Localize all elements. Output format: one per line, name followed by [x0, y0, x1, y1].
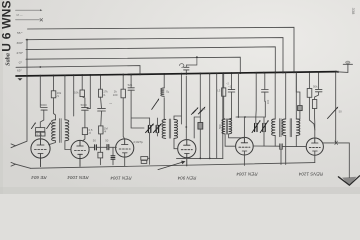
resistor stage4 right [199, 74, 201, 122]
rheostat arrow [328, 108, 337, 118]
svg-text:REN 904: REN 904 [177, 176, 196, 181]
svg-text:100: 100 [266, 99, 270, 104]
bus line 300V [26, 38, 283, 73]
thick chassis bus [16, 72, 337, 76]
svg-text:300*: 300* [17, 41, 24, 45]
V6 anode out wire [323, 143, 350, 178]
dial pointer line 2 with x end [16, 19, 40, 21]
coupling capacitor 50 b [107, 145, 109, 150]
output transformer winding 2 [282, 119, 286, 136]
trimmer caps stage5 (dark) [255, 124, 257, 132]
junction dot on 65V line [39, 66, 41, 68]
transformer T1 primary coil [52, 120, 56, 141]
wire drop x73.7 [73, 75, 75, 116]
resistor 10k stage2 [81, 75, 83, 90]
tube V4 REN904 [178, 140, 196, 166]
wire drop x216.7 [216, 74, 218, 158]
capacitor 0,1 top [130, 75, 132, 88]
svg-text:REN 1004: REN 1004 [236, 172, 258, 177]
svg-text:50k: 50k [313, 84, 318, 88]
tick on out wire [335, 141, 338, 145]
trimmer arrow a [252, 122, 259, 133]
capacitor 5000 stage1 [41, 108, 47, 111]
transformer T4 secondary [174, 120, 178, 139]
trimmer feed wires [150, 118, 158, 164]
small box stage6 [298, 106, 303, 111]
tuning cap arrow b [153, 125, 160, 133]
trimmer arrow left [31, 124, 34, 129]
wire drop x209.7 [209, 74, 211, 158]
T1 secondary top lead to bus [64, 75, 66, 119]
rheostat wire [335, 72, 337, 143]
bus line 270V [26, 47, 275, 73]
svg-text:M —: M — [17, 13, 23, 17]
capacitor 5000 stage2 [82, 108, 89, 111]
tuning arrow stage4b [198, 108, 204, 114]
output arrow (large) [338, 176, 359, 185]
wire drop x222.8 [222, 74, 224, 158]
resistor 0,3 [223, 74, 225, 88]
output transformer winding 3 [296, 119, 300, 136]
pointer arrow across rail [158, 162, 183, 170]
svg-text:RENS 1204: RENS 1204 [298, 172, 323, 177]
junction dots on V5 grid wire [238, 116, 240, 118]
T1 primary bottom lead to V1 [49, 141, 56, 145]
tuning arrow stage4 [152, 100, 158, 109]
chassis marker triangle [18, 78, 23, 80]
wire drop x186.3 to V4 anode [185, 70, 187, 140]
grid wire above V5 [236, 73, 265, 146]
T1 secondary bottom lead to V2 grid [65, 141, 71, 150]
svg-text:55 *: 55 * [17, 31, 23, 35]
svg-text:270*: 270* [17, 51, 24, 55]
antenna terminal [11, 144, 16, 148]
resistor 50k [308, 73, 310, 88]
transformer T1 core [60, 119, 62, 143]
svg-text:0,50: 0,50 [155, 124, 159, 130]
bus line 55V [28, 27, 295, 72]
junction dot on V4 drop [185, 126, 187, 128]
svg-text:0,3: 0,3 [216, 88, 220, 92]
svg-text:0,05: 0,05 [36, 132, 42, 136]
resistor 2k [122, 75, 124, 89]
tuning capacitor pair (dark) [148, 126, 150, 133]
grid capacitor V6 [253, 145, 279, 147]
svg-text:50: 50 [339, 109, 343, 113]
tube V3 REN1004 [116, 139, 134, 166]
capacitor stage5 top [231, 74, 233, 89]
transformer T4 core [169, 119, 170, 138]
grid leak resistor below [99, 147, 101, 164]
svg-text:521: 521 [128, 83, 133, 87]
wire drop stage5 right [255, 74, 257, 117]
bus end arrowhead [334, 71, 338, 73]
transformer T4 primary [162, 120, 166, 139]
svg-text:REN 1004: REN 1004 [110, 176, 132, 181]
transformer T1 secondary coil [65, 120, 69, 141]
svg-text:500: 500 [218, 124, 222, 129]
coupling capacitor 50 a [89, 146, 94, 148]
capacitor stage6 top [264, 74, 266, 90]
tube V2 REN1004 [71, 140, 89, 166]
earth terminal [11, 162, 16, 166]
output transformer winding 1 [272, 119, 276, 136]
mains terminal [337, 64, 353, 72]
svg-text:5000: 5000 [81, 103, 88, 107]
resistor stage6 lower [312, 100, 316, 109]
tube V5 REN1004 [236, 137, 254, 165]
svg-text:5000: 5000 [41, 103, 48, 107]
svg-text:REN 1004: REN 1004 [67, 175, 89, 180]
grid capacitor box 0.05 [36, 128, 45, 132]
svg-text:0,047μ: 0,047μ [134, 140, 144, 144]
T4 secondary leads [174, 116, 181, 149]
tuning cap arrow a [146, 125, 153, 133]
grid rail under V4 [177, 157, 224, 159]
output transformer core b [290, 119, 291, 137]
svg-text:RE 604: RE 604 [31, 175, 47, 180]
output transformer core a [280, 119, 281, 137]
node on 300V line [26, 39, 28, 41]
T5 leads [224, 118, 245, 146]
capacitor stage6 right [318, 73, 320, 89]
capacitor stage3 [98, 108, 106, 111]
svg-text:0,1: 0,1 [202, 107, 206, 111]
grid resistor box stage2 [82, 128, 87, 135]
svg-text:U 6 WNS: U 6 WNS [0, 0, 14, 51]
transformer T5 core [226, 119, 227, 134]
tube V1 top lead [40, 132, 42, 139]
trimmer arrow right [47, 124, 50, 129]
wire drop x181.4 [180, 75, 182, 124]
winding drops [275, 73, 296, 119]
bus line 65V [16, 66, 140, 75]
svg-text:65*: 65* [17, 69, 22, 73]
transformer T5 secondary [229, 119, 232, 134]
padding capacitor box [141, 157, 148, 160]
junction dots on chassis bus [26, 71, 337, 77]
wire drop stage1 [40, 76, 44, 128]
svg-text:50: 50 [93, 139, 97, 143]
cathode rail [31, 163, 315, 169]
trimmer arrow b [260, 122, 267, 133]
earth wire to cathode rail [16, 164, 31, 168]
resistor 1M [99, 126, 103, 134]
transformer T5 primary [222, 119, 225, 134]
screen capacitor on -2V line [184, 67, 189, 70]
bypass capacitor stacked [112, 147, 114, 165]
antenna riser wire [16, 40, 28, 146]
bus line -2V [26, 57, 240, 73]
resistor 10k stage1 [53, 76, 55, 91]
svg-text:50: 50 [105, 139, 109, 143]
svg-text:338: 338 [351, 8, 356, 15]
svg-text:Saba: Saba [5, 53, 12, 66]
tube V6 RENS1204 [306, 138, 323, 163]
RF choke [163, 75, 165, 88]
gang capacitor arrow b [191, 109, 197, 115]
tube V1 RE604 [31, 139, 50, 167]
svg-text:10k: 10k [74, 90, 79, 94]
dial pointer line 1 with arrowhead [16, 9, 41, 11]
svg-text:100: 100 [113, 93, 118, 97]
resistor 17k [100, 75, 102, 89]
wire drop x90.3 [87, 75, 90, 108]
